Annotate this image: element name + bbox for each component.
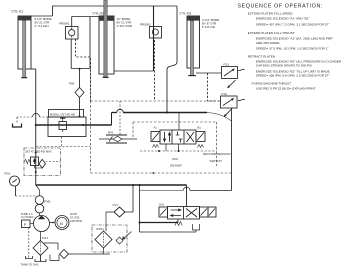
wire case drain dashed	[28, 228, 30, 259]
manifold enclosure dashed	[91, 101, 232, 173]
wire return filter drop to header	[103, 248, 105, 254]
svg-text:SOL: SOL	[159, 203, 165, 207]
wire CYL-01 cap port	[31, 15, 53, 17]
wire top bus	[53, 6, 178, 16]
wire PRSW1 drop solid	[70, 39, 72, 69]
check valve relief bypass	[39, 159, 46, 168]
svg-text:P 3.8 CID: P 3.8 CID	[202, 25, 216, 29]
value label cylinder 1 bore	[35, 17, 52, 28]
label pump	[21, 213, 34, 219]
wire bus right drop with jog	[167, 6, 177, 113]
directional valve DV2	[159, 207, 216, 220]
cylinder CYL-01	[18, 16, 31, 78]
wire check to return filter	[105, 212, 107, 231]
pilot dashed segments left	[36, 137, 91, 147]
tank reservoir	[35, 259, 46, 262]
wire manifold feed box	[71, 17, 90, 69]
wire DV1 tank drops	[166, 144, 179, 151]
value label cylinder 2 bore	[117, 17, 133, 28]
wire FS2 pilot dashed	[208, 73, 221, 101]
svg-text:M: M	[60, 222, 63, 226]
node junctions	[35, 112, 168, 127]
pressure switch PRSW2	[150, 27, 162, 39]
svg-text:P: P	[24, 223, 26, 227]
node return joins	[139, 222, 141, 224]
svg-text:FS1: FS1	[224, 63, 230, 67]
check valve CV1	[106, 207, 133, 217]
arrow bypass setting	[123, 232, 132, 240]
cylinder CYL-02	[99, 0, 114, 78]
svg-text:ENERGIZE SOLENOID "A1" (EA. 20: ENERGIZE SOLENOID "A1" (EA. 2000 LBS) AN…	[256, 36, 333, 40]
svg-text:RTN1: RTN1	[97, 227, 105, 231]
svg-text:CYL-03: CYL-03	[180, 12, 192, 16]
cylinder CYL-03	[187, 16, 200, 76]
wire FS2 drain down	[231, 108, 233, 191]
node relief taps	[35, 152, 37, 174]
wire drop to manifold	[79, 69, 81, 117]
svg-text:CYL-02: CYL-02	[93, 12, 105, 16]
pressure switch PRSW1	[66, 27, 79, 40]
motor M1	[55, 216, 69, 230]
node at label box	[79, 116, 81, 118]
wire manifold to FS2 drain curve	[207, 113, 232, 122]
svg-text:TANK 70 GAL: TANK 70 GAL	[21, 263, 39, 267]
pilot dashed from relief	[46, 161, 61, 163]
svg-text:MODUL CNT AD HB: MODUL CNT AD HB	[50, 112, 75, 116]
svg-text:RETRACT PLATEN: RETRACT PLATEN	[248, 55, 275, 59]
limit bracket	[13, 124, 22, 128]
wire branch down to return check	[132, 185, 134, 212]
wire return line B with hop	[190, 190, 232, 192]
svg-text:SET AT 2850 PSI MAX: SET AT 2850 PSI MAX	[25, 149, 52, 153]
modular check valve block	[48, 110, 86, 137]
wire CYL-01 rod port to main riser	[31, 68, 36, 70]
wire gauge dashed	[16, 195, 36, 197]
wire dashed continuation	[90, 69, 92, 102]
pilot dashed with hop to limit bracket	[40, 116, 49, 118]
wire CYL-03 port to FS1	[196, 72, 222, 74]
wire heavy return left	[140, 222, 179, 224]
flow meter FM1	[35, 196, 44, 213]
wire P1 to pump	[30, 223, 34, 225]
wire bottom run	[140, 231, 197, 233]
svg-text:SPEED= 356 IPM, 9.8 GPM, 2.6 S: SPEED= 356 IPM, 9.8 GPM, 2.6 SECONDS FOR…	[256, 74, 330, 78]
svg-text:EXTEND PLATEN FULL SPEED: EXTEND PLATEN FULL SPEED	[248, 12, 294, 16]
check valve tank header	[60, 250, 69, 259]
relief valve assembly box dash-dot	[24, 148, 61, 176]
svg-text:SPEED= 457 IPM, 7.2 GPM, 3.1 S: SPEED= 457 IPM, 7.2 GPM, 3.1 SECONDS FOR…	[256, 22, 330, 26]
label decompression switch	[203, 152, 231, 163]
wire tank header	[69, 253, 111, 255]
svg-text:1200 RPM: 1200 RPM	[70, 220, 82, 223]
check valve filter bypass	[116, 237, 123, 244]
svg-text:D05 4W3P: D05 4W3P	[170, 165, 182, 168]
wire pipe A drop to DV2	[186, 185, 188, 207]
wire pump to filter	[40, 232, 42, 241]
pump aux box	[22, 220, 31, 228]
value label cylinder 3 bore	[202, 18, 219, 29]
svg-text:FM1: FM1	[45, 200, 51, 204]
wire CYL-02 rod port	[114, 70, 154, 72]
svg-text:USE PB2 S FR.22 88.25+ EXPLAIN: USE PB2 S FR.22 88.25+ EXPLAIN PRINT	[256, 87, 316, 91]
check valve RV1	[99, 135, 137, 143]
pressure gauge PG1	[10, 176, 20, 196]
node on switch line	[152, 172, 154, 174]
spring DV1 left	[153, 145, 159, 148]
svg-text:FM2: FM2	[69, 82, 75, 86]
wire flow meter to pump	[39, 213, 41, 216]
sequence of operation text	[238, 3, 342, 90]
svg-text:PRSW2: PRSW2	[140, 23, 151, 27]
spring DV1 right	[198, 145, 204, 148]
svg-text:PURGE MACHINE THRUST: PURGE MACHINE THRUST	[252, 81, 292, 85]
flow control FS2	[221, 96, 245, 117]
wire filter to tank	[40, 256, 42, 262]
wire pilot drop to RV1	[119, 101, 121, 135]
svg-text:PG1: PG1	[5, 172, 11, 176]
tank vented DV2	[193, 224, 200, 232]
flow control FS1	[222, 67, 245, 89]
wire pump shaft	[50, 222, 55, 224]
svg-text:CYL-01: CYL-01	[12, 10, 24, 14]
svg-text:AT 1750: AT 1750	[70, 217, 80, 220]
wire main pressure pipe lower	[36, 184, 187, 186]
svg-text:40 HP: 40 HP	[70, 213, 77, 216]
svg-text:SWITCH: SWITCH	[210, 159, 222, 163]
wire main vertical pressure line	[35, 69, 37, 185]
node feed tee	[79, 68, 81, 70]
wire PRSW2 drop dashed	[154, 40, 156, 101]
return filter assembly box	[92, 225, 127, 252]
orifice FM2	[75, 88, 84, 98]
wire filter bypass	[44, 243, 58, 250]
svg-text:PRSW1: PRSW1	[59, 22, 70, 26]
filter FLT1	[33, 241, 48, 256]
spring DV2	[175, 222, 182, 226]
wire PRSW1 pilot dashed	[76, 39, 91, 101]
svg-text:A1: A1	[154, 126, 158, 130]
svg-text:2" 3.3 ADJ: 2" 3.3 ADJ	[35, 24, 50, 28]
relief valve RV2	[25, 157, 43, 168]
wire pump riser to flow meter	[36, 185, 40, 196]
tank case drain	[26, 256, 33, 259]
svg-text:SPEED= 37.5 IPM, .62 GPM, 1.6: SPEED= 37.5 IPM, .62 GPM, 1.6 SECONDS FO…	[256, 46, 329, 50]
svg-text:FLT1: FLT1	[42, 236, 49, 240]
wire branch down at 139.5	[139, 185, 141, 232]
svg-text:B1: B1	[198, 126, 202, 130]
svg-text:CU IN REV: CU IN REV	[21, 216, 34, 219]
svg-text:EXTEND PLATEN FULL THRUST: EXTEND PLATEN FULL THRUST	[248, 31, 295, 35]
tick mark	[172, 158, 178, 160]
wire bus drop to PRSW2	[153, 6, 155, 71]
wire DV1 P drop	[178, 113, 180, 131]
svg-text:X 3/4" ROD: X 3/4" ROD	[117, 24, 133, 28]
wire DV2 tank drop	[177, 219, 179, 223]
directional valve DV1	[151, 130, 205, 144]
svg-text:FS2: FS2	[222, 92, 228, 96]
pump P1	[34, 215, 50, 231]
wire heavy pressure run	[36, 124, 112, 126]
svg-text:ARE 30% MORE: ARE 30% MORE	[256, 41, 280, 45]
valve block dashed	[133, 122, 217, 166]
svg-text:DECOMPRESSION: DECOMPRESSION	[203, 152, 231, 156]
svg-text:CAP END STROKE DROPS TO 900 PS: CAP END STROKE DROPS TO 900 PSI	[256, 64, 312, 68]
filter RTN1	[95, 231, 112, 248]
wire PRSW1 tee	[72, 17, 99, 27]
svg-text:ENERGIZE SOLENOID "A1" AND "B1: ENERGIZE SOLENOID "A1" AND "B1"	[256, 17, 310, 21]
svg-text:CV1: CV1	[113, 203, 119, 207]
svg-text:RV1: RV1	[108, 131, 114, 135]
label motor specs	[70, 213, 82, 223]
svg-text:ENERGIZE SOLENOID "B2" TILL UP: ENERGIZE SOLENOID "B2" TILL UP LIMIT IS …	[256, 69, 331, 73]
tank under check	[50, 255, 59, 261]
pilot dashed under DV1	[140, 150, 217, 152]
svg-text:SEQUENCE OF OPERATION:: SEQUENCE OF OPERATION:	[238, 3, 324, 9]
